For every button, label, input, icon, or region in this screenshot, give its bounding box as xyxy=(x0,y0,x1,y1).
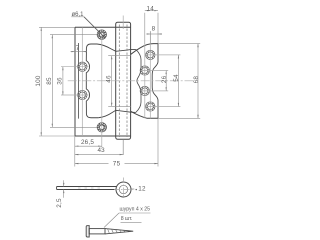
dimension 54 line xyxy=(177,55,179,107)
ext lines for dim 46 (inner leaf extent) xyxy=(108,55,131,57)
left leaf scalloped window contour xyxy=(86,44,98,118)
leader d6.1 slant line xyxy=(84,17,105,38)
screw label line 2 xyxy=(121,222,142,224)
right hole column 1 center line xyxy=(149,31,151,118)
svg-text:75: 75 xyxy=(113,160,121,167)
screw head xyxy=(86,226,89,237)
ext line H1 column up to 8-dim xyxy=(149,32,151,44)
side view barrel circle xyxy=(116,182,131,197)
side view circle center lines xyxy=(123,178,125,197)
dimension 68 line xyxy=(197,44,199,119)
ext line C2 to 85-dim xyxy=(50,126,97,128)
svg-text:46: 46 xyxy=(106,75,113,83)
horizontal center line of hinge xyxy=(68,80,195,82)
svg-text:100: 100 xyxy=(35,75,42,87)
dimension 100 line xyxy=(40,27,42,136)
hole center line H1 (ext to dim 54) xyxy=(146,54,180,56)
hole center line H4 (ext to dim 54) xyxy=(146,106,180,108)
right leaf screw hole 2 xyxy=(140,66,149,75)
ext line top edge to 100-dim xyxy=(39,26,75,28)
dimension 2,5 (plate thickness) xyxy=(63,180,65,186)
svg-text:36: 36 xyxy=(57,77,64,85)
svg-text:8 шт.: 8 шт. xyxy=(121,216,133,222)
svg-text:54: 54 xyxy=(173,74,180,82)
barrel (knuckle) outline xyxy=(116,22,131,139)
ext line right edge up to 14-dim xyxy=(157,13,159,44)
right leaf screw hole 4 xyxy=(146,102,155,111)
left leaf screw hole upper xyxy=(78,62,87,71)
leader d6.1 shelf xyxy=(71,16,84,18)
dimension 46 line xyxy=(111,56,113,107)
right leaf scalloped right edge xyxy=(152,44,158,119)
hinge leaf outer plate (left leaf rectangle) xyxy=(75,27,131,136)
svg-text:шуруп 4 x 25: шуруп 4 x 25 xyxy=(120,207,151,213)
dimension 14 line xyxy=(145,10,158,12)
right leaf screw hole 3 xyxy=(140,86,149,95)
ext line bottom edge to 68-dim xyxy=(158,117,200,119)
svg-text:85: 85 xyxy=(46,77,53,85)
screw label line 1 xyxy=(119,212,151,214)
dimension 8 line xyxy=(147,33,163,35)
side view pin circle xyxy=(119,185,127,193)
svg-text:26: 26 xyxy=(161,75,168,83)
svg-text:8: 8 xyxy=(152,25,156,32)
svg-text:ø6,1: ø6,1 xyxy=(72,12,85,18)
dimension 75 line xyxy=(75,163,109,165)
dimension 43 line xyxy=(75,154,123,156)
svg-text:12: 12 xyxy=(138,186,146,193)
ext line bottom edge to 100-dim xyxy=(39,135,75,137)
ext line C1 to 85-dim xyxy=(50,34,97,36)
label 12 (barrel diameter) xyxy=(132,188,135,190)
scallop S-curve top (to barrel) xyxy=(97,44,136,51)
screw thread lines xyxy=(108,229,110,234)
ext line right leaf corner down to 75-dim xyxy=(157,118,159,166)
inner leaf left edge line xyxy=(77,43,79,119)
dimension 26,5 line xyxy=(75,145,102,147)
svg-text:7: 7 xyxy=(76,45,80,52)
svg-text:2,5: 2,5 xyxy=(56,198,63,208)
side view leaf plate (edge-on) xyxy=(57,187,117,190)
hole center line H3 (ext to dim 26) xyxy=(141,90,169,92)
hole center line H2 (ext to dim 26) xyxy=(141,70,169,72)
barrel axis center line xyxy=(122,16,124,30)
hole center line L1 xyxy=(61,66,89,68)
dimension 36 line xyxy=(62,67,64,95)
right hole column 2 center line xyxy=(144,44,146,118)
svg-text:14: 14 xyxy=(146,5,154,12)
ext line top edge to 68-dim xyxy=(158,43,200,45)
side view plate mid hidden dashes xyxy=(78,187,104,189)
left hole column center line xyxy=(81,27,83,136)
countersunk hole bottom xyxy=(97,123,106,132)
right leaf bottom edge xyxy=(131,111,158,118)
hole center line L2 xyxy=(61,94,89,96)
ext line H2 column up to 14-dim xyxy=(144,13,146,44)
countersunk hole column center line xyxy=(101,29,103,147)
right leaf screw hole 1 xyxy=(146,50,155,59)
dimension 26 line xyxy=(165,71,167,91)
dimension 7 line xyxy=(71,51,87,53)
screw leader line xyxy=(104,213,119,228)
right leaf top edge xyxy=(131,44,158,55)
left leaf screw hole lower xyxy=(78,90,87,99)
svg-text:26,5: 26,5 xyxy=(81,139,94,146)
screw shank xyxy=(89,229,105,234)
barrel pin hidden lines xyxy=(118,25,120,137)
scallop S-curve bottom (to barrel) xyxy=(98,110,136,117)
right leaf inner contour (mating leaf edge) xyxy=(136,49,141,112)
ext line left edge down to dims xyxy=(74,136,76,167)
screw threaded tip xyxy=(105,229,133,234)
svg-text:68: 68 xyxy=(193,76,200,84)
countersunk hole top (d6.1) xyxy=(97,30,106,39)
svg-text:43: 43 xyxy=(97,147,105,154)
dimension 85 line xyxy=(51,35,53,128)
